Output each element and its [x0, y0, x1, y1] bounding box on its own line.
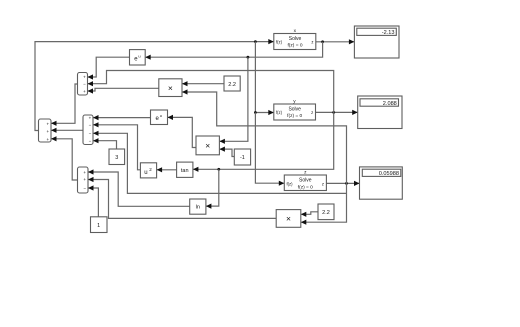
svg-text:tan: tan — [181, 168, 189, 174]
svg-text:u: u — [160, 113, 162, 118]
display block D2 value 2.088 — [358, 96, 402, 129]
svg-text:u: u — [144, 170, 147, 176]
svg-text:+: + — [46, 137, 49, 142]
constant -1 — [234, 149, 250, 165]
node f-net junction at Solve-x input — [254, 40, 257, 43]
svg-text:u: u — [138, 53, 140, 58]
wire product1 output into SumA input 3 — [88, 88, 159, 93]
wire y-net branch down into ln input — [206, 169, 219, 208]
display block D3 value 0.05988 — [360, 167, 403, 199]
svg-text:+: + — [83, 89, 86, 94]
wire z-net up and left then into product1 input 2 — [182, 89, 347, 183]
math block ln — [190, 199, 206, 214]
constant 2.2 top — [224, 76, 240, 91]
wire product3 output into SumC input 2 — [88, 177, 276, 219]
wire f-net vertical branch down to Solve-z input — [255, 113, 284, 186]
wire z-net branch left into SumB input 3 — [93, 131, 347, 194]
svg-text:-1: -1 — [240, 155, 245, 161]
svg-text:−: − — [89, 131, 92, 136]
wire constant 1 up into SumC input 3 — [88, 185, 98, 216]
svg-text:z: z — [322, 181, 324, 186]
sum block SumB — [83, 115, 93, 145]
wire SumC output up into SumD input 3 — [51, 136, 78, 180]
wire exp2 output into SumB input 1 — [93, 115, 151, 120]
node x-net junction above product2 column — [247, 56, 250, 59]
math block tan — [177, 162, 193, 177]
constant 1 — [91, 217, 108, 233]
wire product2 output up into exp2 input — [168, 115, 197, 148]
svg-text:×: × — [205, 141, 210, 151]
display block D1 value -2.13 — [354, 26, 399, 58]
svg-text:f(z): f(z) — [276, 39, 283, 44]
wire y-net: Solve-y output to Display2 — [316, 110, 358, 115]
node z-net junction right of Solve-z — [345, 182, 348, 185]
wire x-net feedback below Solve-x to exp block input — [145, 42, 322, 60]
wire z-net down branch to product3 input 2 — [301, 183, 347, 224]
svg-text:0.05988: 0.05988 — [379, 171, 399, 177]
wire square output up into SumB input 2 — [93, 122, 140, 170]
product block P1 — [159, 79, 182, 97]
sum block SumA — [78, 73, 88, 96]
wire y-net up and left into SumA input 2 — [88, 71, 334, 113]
svg-text:−: − — [89, 123, 92, 128]
svg-text:3: 3 — [115, 155, 118, 161]
wire f-net vertical branch down to Solve-y input — [255, 42, 273, 116]
svg-text:f(z): f(z) — [276, 110, 283, 115]
svg-text:Solve: Solve — [299, 178, 312, 184]
wire f-net: SumD output up left side and along top into Solve-x input — [35, 39, 274, 131]
svg-text:−: − — [83, 82, 86, 87]
product block P2 — [196, 136, 219, 155]
svg-text:+: + — [46, 121, 49, 126]
wire constant -1 to product2 input 2 — [219, 147, 234, 157]
svg-text:+: + — [46, 129, 49, 134]
wire constant 2.2 top to product1 input 1 — [182, 81, 224, 86]
svg-text:2.088: 2.088 — [383, 101, 397, 107]
math block exp2 e^u — [151, 110, 168, 125]
wire x-net: Solve-x output to Display1 — [316, 39, 355, 44]
svg-text:+: + — [83, 177, 86, 182]
svg-text:−: − — [83, 186, 86, 191]
svg-text:+: + — [83, 170, 86, 175]
svg-text:f(z) = 0: f(z) = 0 — [298, 184, 313, 190]
svg-text:×: × — [168, 83, 173, 93]
svg-text:2.2: 2.2 — [228, 82, 236, 88]
wire y-net down and left into tan input — [193, 112, 334, 171]
svg-text:×: × — [286, 214, 291, 224]
wire SumB output into SumD input 2 — [51, 128, 83, 133]
wire SumA output down into SumD input 1 — [51, 84, 78, 126]
svg-text:z: z — [311, 39, 313, 44]
constant 2.2 bottom — [318, 204, 334, 220]
svg-text:f(z): f(z) — [287, 181, 294, 186]
wire exp1 output into SumA input 1 — [88, 57, 130, 79]
svg-text:ln: ln — [196, 205, 200, 211]
sum block SumC — [78, 167, 89, 193]
product block P3 — [276, 210, 301, 228]
math block square u^2 — [140, 163, 156, 178]
wire ln output up into SumC input 1 — [88, 169, 190, 206]
node x-net junction right of Solve-x — [321, 40, 324, 43]
wire z-net: Solve-z output to Display3 — [326, 181, 359, 186]
wire constant 3 up into SumB input 4 — [93, 138, 117, 149]
svg-text:+: + — [83, 75, 86, 80]
node y-net junction above ln block — [217, 168, 220, 171]
algebraic constraint block Solve-z — [284, 170, 326, 190]
svg-text:z: z — [311, 110, 313, 115]
algebraic constraint block Solve-x — [274, 29, 316, 50]
svg-text:f(z) = 0: f(z) = 0 — [287, 43, 302, 49]
svg-text:−: − — [89, 139, 92, 144]
sum block SumD — [39, 119, 52, 142]
svg-text:Solve: Solve — [289, 36, 302, 42]
constant 3 — [109, 149, 125, 165]
math block exp1 e^u — [130, 50, 146, 65]
node y-net junction right of Solve-y — [332, 111, 335, 114]
svg-text:1: 1 — [97, 223, 100, 229]
svg-text:+: + — [89, 115, 92, 120]
wire constant 2.2 bottom to product3 input 1 — [301, 212, 318, 217]
svg-text:-2.13: -2.13 — [382, 30, 395, 36]
svg-text:2.2: 2.2 — [322, 210, 330, 216]
wire tan output into square input — [157, 167, 177, 172]
svg-text:f(z) = 0: f(z) = 0 — [287, 113, 302, 119]
wire x-net branch down into product2 input 1 — [219, 57, 248, 144]
algebraic constraint block Solve-y — [274, 99, 316, 120]
svg-text:Solve: Solve — [288, 106, 301, 112]
node f-net junction at Solve-y input — [254, 111, 257, 114]
